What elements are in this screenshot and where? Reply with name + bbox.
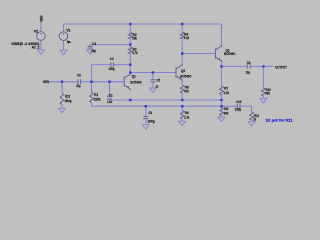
junction at 182.2,24: [181, 23, 183, 25]
wire C1 stem: [109, 82, 111, 97]
capacitor C1: [107, 95, 112, 97]
voltage source V2: [37, 32, 46, 41]
ground R6: [179, 121, 186, 125]
wire C10 to R11: [241, 106, 252, 112]
wire R11 to ground: [251, 120, 253, 122]
wire Q1 collector node to Q3 base: [130, 72, 176, 74]
wire R2 bottom to Q1 collector: [129, 54, 131, 76]
transistor Q3: [176, 64, 182, 81]
svg-text:20µ: 20µ: [91, 49, 96, 53]
wire R3 bottom lead: [129, 39, 131, 47]
svg-text:33k: 33k: [132, 36, 138, 40]
junction at 91.5,81.7: [90, 81, 92, 83]
junction at 130.3,44.6: [129, 43, 131, 45]
resistor R5: [180, 85, 184, 93]
wire R7 top lead: [221, 66, 223, 86]
svg-text:GEN: GEN: [43, 80, 49, 84]
svg-text:C3: C3: [77, 74, 81, 78]
capacitor C5: [150, 79, 155, 81]
junction at 221.5,106.2: [220, 105, 222, 107]
ground C4: [87, 50, 94, 54]
capacitor C10: [236, 104, 238, 109]
wire V2 to ground: [40, 40, 42, 50]
resistor R12: [60, 93, 64, 105]
wire feedback node B horizontal: [92, 103, 222, 107]
wire R4 top lead: [181, 24, 183, 32]
wire Q2 base: [182, 53, 214, 55]
wire emitter node A horizontal: [110, 99, 222, 100]
svg-text:C5: C5: [156, 78, 160, 82]
resistor R3: [128, 32, 132, 39]
svg-text:100µ: 100µ: [147, 119, 155, 123]
junction at 109.5,81.7: [108, 81, 110, 83]
resistor R7: [220, 86, 224, 95]
capacitor C4: [88, 45, 93, 47]
svg-text:C8: C8: [247, 61, 251, 65]
wire Q3 emitter to R5: [181, 80, 183, 86]
svg-text:1n: 1n: [155, 84, 158, 88]
junction at 182.2,100: [181, 99, 183, 101]
svg-text:10µ: 10µ: [76, 84, 80, 88]
wire R12 top lead: [61, 82, 63, 93]
svg-text:C6: C6: [148, 111, 152, 115]
junction at 130.3,64.6: [129, 63, 131, 65]
wire R8 to ground: [221, 116, 223, 118]
junction at 221.5,100: [220, 99, 222, 101]
junction at 182.2,106.2: [181, 105, 183, 107]
transistor Q2: [215, 45, 221, 62]
svg-text:Q3: Q3: [181, 69, 185, 73]
svg-text:BC549C: BC549C: [130, 81, 142, 85]
wire C2 branch left: [92, 65, 111, 82]
svg-text:R1: R1: [94, 93, 98, 97]
wire C6 stem: [145, 106, 147, 116]
svg-text:5.1k: 5.1k: [184, 36, 190, 40]
svg-text:470: 470: [184, 90, 189, 94]
wire R6 top lead: [181, 106, 183, 110]
resistor R11: [250, 112, 254, 120]
svg-text:10µ: 10µ: [246, 70, 250, 74]
junction at 130.3,24: [129, 23, 131, 25]
resistor R2: [128, 47, 132, 54]
wire top rail: [64, 24, 222, 32]
wire output down to R10: [262, 66, 264, 88]
svg-text:Q1: Q1: [132, 74, 136, 78]
svg-text:220µ: 220µ: [235, 107, 242, 111]
svg-text:OUTPUT: OUTPUT: [275, 66, 287, 70]
resistor R1: [90, 92, 94, 102]
svg-text:V1: V1: [66, 28, 70, 32]
svg-text:100p: 100p: [109, 67, 116, 71]
wire R12 bottom lead: [61, 105, 63, 109]
wire node B to C10: [222, 105, 237, 107]
wire C2 branch right: [113, 64, 130, 66]
svg-text:BC549C: BC549C: [180, 74, 192, 78]
wire Q3 collector: [181, 54, 183, 67]
wire Q2 emitter stub: [221, 61, 223, 67]
junction at 130.3,72.5: [129, 71, 131, 73]
wire R4 bottom lead: [181, 39, 183, 54]
capacitor C8: [246, 64, 248, 69]
svg-text:BC549C: BC549C: [224, 52, 236, 56]
wire R5 bottom lead: [181, 93, 183, 100]
wire R10 to ground: [262, 96, 264, 99]
wire C8 to OUTPUT flag: [251, 65, 274, 67]
junction at 263.4,66.4: [262, 65, 264, 67]
wire V1 to ground: [63, 41, 65, 51]
svg-text:C2: C2: [110, 57, 114, 61]
ground V2: [37, 50, 44, 54]
ground V1: [60, 50, 67, 54]
junction at 62,81.7: [61, 81, 63, 83]
svg-text:50k: 50k: [265, 91, 270, 95]
capacitor C3: [77, 79, 79, 84]
transistor Q1: [124, 73, 130, 90]
voltage source V1: [59, 32, 68, 41]
svg-text:AC .2: AC .2: [32, 46, 40, 50]
wire C4 to R3-R2 node: [90, 45, 130, 46]
ground R12: [59, 108, 66, 112]
svg-text:1Meg: 1Meg: [64, 99, 71, 103]
wire C6 to ground: [145, 119, 147, 125]
wire output node to C8: [222, 65, 247, 67]
resistor R8: [220, 108, 224, 116]
junction at 145.8,106.2: [145, 105, 147, 107]
junction at 182.2,53.5: [181, 52, 183, 54]
wire node A to node B vertical: [221, 100, 223, 108]
wire GEN segment 2: [81, 81, 124, 83]
resistor R4: [180, 32, 184, 39]
svg-text:390: 390: [224, 111, 229, 115]
svg-text:R12: R12: [65, 95, 70, 99]
ground R10: [260, 99, 267, 103]
mouse cursor: [67, 40, 72, 44]
svg-text:C1: C1: [109, 93, 113, 97]
svg-text:R8: R8: [224, 107, 228, 111]
svg-text:V2: V2: [34, 29, 39, 33]
capacitor C6: [143, 116, 148, 118]
svg-text:1K pot for R11: 1K pot for R11: [265, 118, 292, 122]
wire R6 to ground: [181, 119, 183, 121]
junction at 152.9,72.5: [152, 71, 154, 73]
wire C1 bottom lead: [109, 99, 111, 100]
junction at 130.3,100: [129, 99, 131, 101]
ground R11: [248, 122, 255, 126]
wire C5 to ground: [152, 82, 154, 88]
wire C5 stem: [152, 73, 154, 80]
svg-text:C10: C10: [236, 100, 241, 104]
wire V2 flag stub: [40, 22, 42, 32]
svg-text:1.1k: 1.1k: [184, 115, 190, 119]
svg-text:1.5n: 1.5n: [107, 100, 113, 104]
wire Q2 collector: [221, 24, 223, 47]
svg-text:220k: 220k: [94, 97, 102, 101]
wire R7 bottom lead: [221, 95, 223, 101]
wire GEN segment 1: [50, 81, 78, 83]
ground C5: [149, 88, 156, 92]
capacitor C2: [110, 62, 112, 67]
ground R8: [218, 117, 225, 121]
junction at 221.5,66.4: [220, 65, 222, 67]
ground C6: [142, 125, 149, 129]
resistor R10: [262, 88, 266, 96]
wire R1 top lead: [91, 82, 93, 93]
svg-text:GEN: GEN: [40, 15, 44, 22]
wire R3 top lead: [129, 24, 131, 32]
svg-text:2.2k: 2.2k: [224, 91, 230, 95]
svg-text:4.7k: 4.7k: [132, 51, 138, 55]
resistor R6: [180, 111, 184, 120]
